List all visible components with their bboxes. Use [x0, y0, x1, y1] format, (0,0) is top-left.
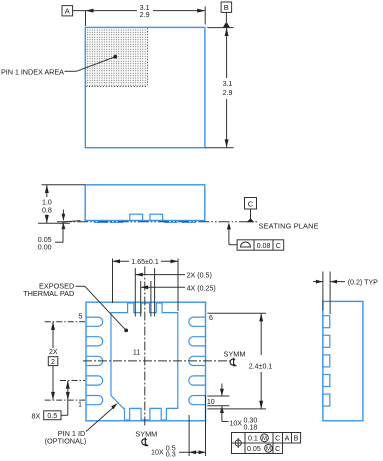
- svg-text:2X (0.5): 2X (0.5): [187, 272, 212, 280]
- svg-text:0.3: 0.3: [166, 451, 176, 459]
- svg-text:0.08: 0.08: [257, 242, 271, 250]
- svg-text:A: A: [285, 435, 290, 443]
- svg-text:0.5: 0.5: [47, 412, 57, 420]
- svg-text:(OPTIONAL): (OPTIONAL): [45, 437, 87, 446]
- svg-text:2: 2: [51, 358, 55, 366]
- svg-text:10X: 10X: [229, 419, 242, 427]
- svg-text:C: C: [275, 435, 280, 443]
- svg-text:C: C: [276, 242, 281, 250]
- svg-text:SYMM: SYMM: [224, 350, 246, 359]
- svg-text:SEATING PLANE: SEATING PLANE: [259, 222, 319, 231]
- svg-text:0.1: 0.1: [248, 435, 258, 443]
- svg-text:5: 5: [79, 312, 83, 320]
- svg-text:0.00: 0.00: [38, 243, 52, 251]
- svg-text:PIN 1 INDEX AREA: PIN 1 INDEX AREA: [1, 68, 64, 77]
- svg-text:1.65±0.1: 1.65±0.1: [131, 258, 159, 266]
- svg-text:8X: 8X: [32, 413, 41, 421]
- svg-text:10X: 10X: [151, 449, 164, 457]
- svg-text:10: 10: [207, 398, 215, 406]
- svg-text:2.4±0.1: 2.4±0.1: [249, 362, 273, 370]
- svg-text:C: C: [275, 445, 280, 453]
- svg-text:C: C: [248, 199, 254, 208]
- svg-text:1.0: 1.0: [42, 198, 52, 206]
- svg-text:6: 6: [209, 314, 213, 322]
- svg-text:SYMM: SYMM: [135, 429, 157, 438]
- svg-text:1: 1: [78, 400, 82, 408]
- svg-text:11: 11: [133, 349, 140, 357]
- svg-text:3.1: 3.1: [223, 80, 233, 88]
- svg-text:A: A: [65, 7, 70, 16]
- svg-text:0.18: 0.18: [244, 424, 258, 432]
- svg-text:0.8: 0.8: [42, 207, 52, 215]
- svg-text:2.9: 2.9: [140, 11, 150, 19]
- svg-text:B: B: [294, 435, 299, 443]
- svg-text:M: M: [266, 447, 271, 453]
- svg-text:0.05: 0.05: [247, 445, 261, 453]
- svg-text:4X (0.25): 4X (0.25): [187, 284, 216, 292]
- svg-text:B: B: [224, 3, 229, 12]
- svg-text:THERMAL PAD: THERMAL PAD: [23, 289, 74, 298]
- svg-text:M: M: [262, 436, 267, 442]
- svg-text:2X: 2X: [49, 348, 58, 356]
- svg-text:(0.2) TYP: (0.2) TYP: [348, 279, 378, 287]
- svg-text:2.9: 2.9: [223, 89, 233, 97]
